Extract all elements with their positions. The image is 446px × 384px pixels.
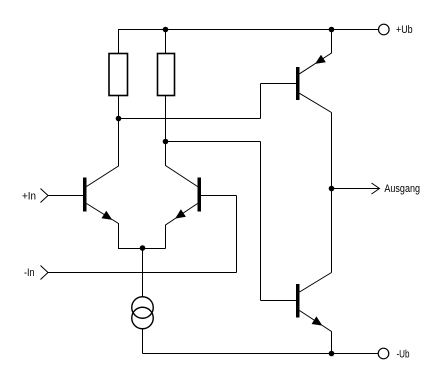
svg-text:+Ub: +Ub bbox=[396, 24, 413, 36]
svg-text:Ausgang: Ausgang bbox=[384, 183, 420, 195]
junction dot top rail / Q3 emitter bbox=[329, 27, 335, 33]
svg-text:-Ub: -Ub bbox=[397, 349, 410, 361]
wire emitter join of differential pair bbox=[118, 248, 166, 250]
wire -In line to Q2 base riser bbox=[48, 196, 237, 273]
terminal circle -Ub bbox=[378, 348, 389, 359]
svg-text:-In: -In bbox=[24, 267, 35, 279]
wire right resistor bottom to node B bbox=[166, 96, 198, 187]
junction dot node B bbox=[163, 139, 169, 145]
wire right resistor top riser bbox=[165, 30, 167, 54]
svg-text:+In: +In bbox=[22, 191, 36, 203]
current source circle lower bbox=[132, 307, 154, 329]
transistor Q2 emitter arrow bbox=[175, 209, 186, 218]
wire +In to Q1 base bbox=[48, 195, 84, 197]
wire node A horizontal to Q3 base bbox=[118, 84, 296, 119]
transistor Q3 base bar bbox=[296, 67, 300, 100]
input terminal chevron +In bbox=[41, 189, 49, 203]
output arrow chevron bbox=[372, 183, 380, 194]
junction dot -Ub rail / Q4 emitter bbox=[329, 351, 335, 357]
resistor left (collector load R1) bbox=[109, 54, 128, 96]
junction dot output node bbox=[329, 186, 335, 192]
transistor Q3 emitter arrow (PNP, points to bar) bbox=[315, 55, 326, 64]
junction dot node A bbox=[116, 116, 122, 122]
wire left resistor top riser bbox=[118, 30, 120, 54]
wire left resistor bottom to node A bbox=[87, 96, 119, 187]
transistor Q4 emitter to -Ub rail bbox=[300, 311, 332, 354]
input terminal chevron -In bbox=[41, 266, 49, 280]
wire top rail +Ub bbox=[118, 29, 379, 31]
junction dot differential pair tail bbox=[140, 245, 146, 251]
transistor Q4 emitter arrow (NPN) bbox=[312, 316, 323, 325]
junction dot top rail / right resistor bbox=[163, 27, 169, 33]
wire node B horizontal to Q4 base bbox=[165, 142, 296, 301]
resistor right (collector load R2) bbox=[158, 54, 175, 96]
transistor Q1 base bar bbox=[83, 178, 87, 212]
transistor Q3 emitter to +Ub rail bbox=[300, 30, 332, 74]
transistor Q2 emitter bbox=[166, 204, 198, 249]
transistor Q1 emitter bbox=[87, 204, 119, 249]
wire current source to -Ub rail bbox=[143, 329, 379, 354]
transistor Q1 emitter arrow bbox=[102, 211, 113, 220]
wire output arrow shaft bbox=[332, 188, 380, 190]
wire output node vertical bbox=[331, 113, 333, 273]
transistor Q2 base bar bbox=[198, 178, 202, 212]
terminal circle +Ub bbox=[379, 24, 390, 35]
transistor Q4 collector bbox=[300, 273, 332, 293]
wire tail node down to current source bbox=[142, 249, 144, 298]
transistor Q3 collector bbox=[300, 93, 332, 112]
transistor Q4 base bar bbox=[296, 284, 300, 318]
current source circle upper bbox=[132, 297, 154, 319]
